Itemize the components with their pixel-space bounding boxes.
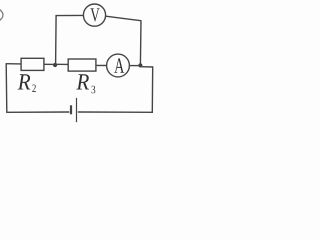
wire: middle vertical (voltmeter left lead) xyxy=(55,16,58,65)
voltmeter V1 circle xyxy=(83,4,105,26)
label R2 xyxy=(18,74,36,92)
ammeter letter A xyxy=(114,58,124,72)
wire: left vertical of loop xyxy=(5,64,8,113)
wire: ammeter to right junction xyxy=(129,65,140,67)
label R3 xyxy=(76,74,95,93)
ammeter A1 circle xyxy=(107,54,130,77)
node junction dot right xyxy=(138,63,142,67)
node junction dot left xyxy=(53,63,57,67)
resistor R3 xyxy=(68,59,96,71)
wire: junction to outer right corner xyxy=(140,66,153,68)
wire: voltmeter to top-right corner (sloped) xyxy=(106,16,141,21)
wire: top horizontal to voltmeter xyxy=(55,14,83,16)
partial circled-label arc at left edge xyxy=(0,9,3,21)
wire: R3 to ammeter xyxy=(96,64,107,66)
wire: bottom right to battery xyxy=(78,111,153,113)
battery cell: short thick negative plate xyxy=(70,105,72,114)
wire: left horizontal to R2 xyxy=(6,63,22,65)
wire: battery to bottom left corner xyxy=(6,111,69,113)
resistor R2 xyxy=(21,58,44,70)
wire: right outer vertical xyxy=(151,66,153,112)
battery cell: long positive plate xyxy=(76,98,78,122)
wire: R2 to junction xyxy=(44,63,56,65)
voltmeter letter V xyxy=(90,8,99,21)
wire: right upper vertical down to junction xyxy=(139,20,142,65)
wire: junction to R3 xyxy=(55,63,68,65)
